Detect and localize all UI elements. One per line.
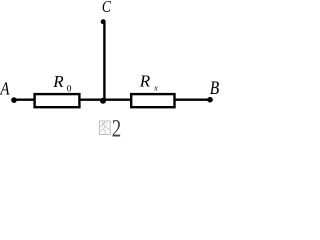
wire Rx to B: [175, 99, 210, 101]
svg-text:C: C: [102, 0, 112, 16]
svg-text:R: R: [139, 71, 151, 90]
junction dot: [100, 98, 106, 104]
svg-text:A: A: [0, 80, 10, 99]
caption digit 2: [112, 114, 121, 142]
wire A to R0: [14, 99, 35, 101]
terminal dot A: [11, 97, 17, 103]
svg-text:2: 2: [112, 114, 121, 139]
node label B: [210, 78, 220, 99]
terminal dot B: [207, 97, 213, 103]
node label A: [0, 80, 10, 99]
terminal dot C: [101, 19, 106, 24]
wire junction to Rx: [103, 99, 131, 101]
resistor R0: [35, 94, 80, 107]
node label C: [102, 0, 112, 16]
svg-text:0: 0: [67, 85, 72, 95]
svg-text:x: x: [153, 84, 158, 93]
caption glyph tu (figure) box: [100, 121, 111, 135]
svg-text:B: B: [210, 78, 220, 99]
wire junction to C: [103, 22, 105, 100]
resistor Rx: [131, 94, 174, 107]
svg-text:R: R: [52, 72, 64, 91]
wire R0 to junction: [80, 99, 106, 101]
